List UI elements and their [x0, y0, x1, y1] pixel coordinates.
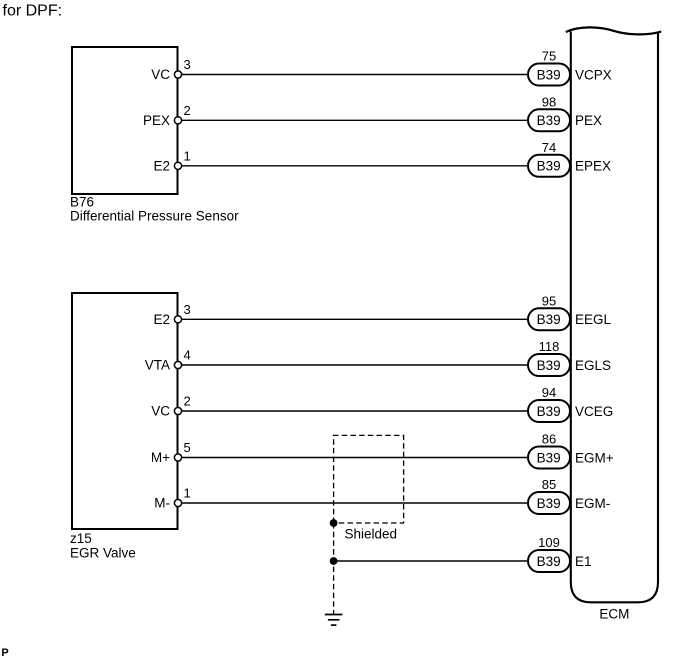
svg-text:EGLS: EGLS	[575, 358, 611, 373]
svg-text:VTA: VTA	[145, 358, 170, 373]
svg-text:M-: M-	[154, 496, 170, 511]
B39 connector oval row 74/EPEX	[528, 140, 611, 177]
svg-text:B39: B39	[537, 159, 561, 174]
svg-text:2: 2	[184, 394, 191, 409]
B39 connector oval row 109/E1	[528, 535, 592, 572]
svg-text:86: 86	[542, 432, 556, 447]
svg-text:B39: B39	[537, 113, 561, 128]
svg-text:109: 109	[538, 535, 560, 550]
svg-text:1: 1	[184, 148, 191, 163]
svg-text:for DPF:: for DPF:	[3, 3, 63, 20]
wire E2(1) to EPEX	[178, 165, 529, 167]
svg-text:E2: E2	[153, 312, 170, 327]
svg-text:E2: E2	[153, 159, 170, 174]
svg-text:PEX: PEX	[575, 113, 602, 128]
B39 connector oval row 75/VCPX	[528, 49, 612, 86]
svg-text:z15: z15	[70, 531, 92, 546]
wire PEX(2) to PEX	[178, 119, 529, 121]
svg-text:VCEG: VCEG	[575, 404, 613, 419]
svg-text:VC: VC	[151, 404, 170, 419]
svg-text:2: 2	[184, 103, 191, 118]
svg-text:B39: B39	[537, 312, 561, 327]
svg-text:94: 94	[542, 385, 556, 400]
shield dashed drain wire	[333, 523, 335, 614]
svg-text:EGM+: EGM+	[575, 450, 614, 465]
svg-text:EGR Valve: EGR Valve	[70, 545, 136, 560]
svg-text:B76: B76	[70, 194, 94, 209]
ground symbol	[325, 615, 343, 626]
svg-text:B39: B39	[537, 496, 561, 511]
pin 4 circle (z15 VTA)	[174, 361, 181, 368]
B39 connector oval row 98/PEX	[528, 94, 602, 131]
B39 connector oval row 94/VCEG	[528, 385, 613, 422]
svg-text:Differential Pressure Sensor: Differential Pressure Sensor	[70, 209, 239, 224]
svg-text:75: 75	[542, 49, 556, 64]
svg-text:VCPX: VCPX	[575, 67, 612, 82]
svg-text:118: 118	[539, 339, 560, 354]
svg-text:1: 1	[184, 486, 191, 501]
svg-text:B39: B39	[537, 67, 561, 82]
svg-text:EPEX: EPEX	[575, 159, 611, 174]
svg-text:85: 85	[542, 477, 556, 492]
svg-text:74: 74	[542, 140, 556, 155]
pin 5 circle (z15 M+)	[174, 454, 181, 461]
connector box z15	[72, 293, 178, 529]
B39 connector oval row 95/EEGL	[528, 293, 612, 330]
svg-text:4: 4	[184, 348, 191, 363]
svg-text:B39: B39	[537, 450, 561, 465]
svg-text:M+: M+	[151, 450, 170, 465]
wire VC(3) to VCPX	[178, 74, 529, 76]
pin 1 circle (z15 M-)	[174, 499, 181, 506]
svg-text:3: 3	[184, 302, 191, 317]
B39 connector oval row 85/EGM-	[528, 477, 610, 514]
wire E2(3) to EEGL	[178, 318, 529, 320]
wire M-(1) to EGM-	[178, 502, 529, 504]
svg-text:EEGL: EEGL	[575, 312, 612, 327]
svg-text:5: 5	[184, 440, 191, 455]
svg-text:E1: E1	[575, 554, 592, 569]
svg-text:B39: B39	[537, 554, 561, 569]
wire VTA(4) to EGLS	[178, 364, 529, 366]
svg-text:VC: VC	[151, 67, 170, 82]
pin 1 circle (B76 E2)	[174, 162, 181, 169]
ECM right vertical line	[657, 32, 659, 583]
svg-text:P: P	[1, 647, 8, 659]
pin 3 circle (B76 VC)	[174, 71, 181, 78]
svg-text:95: 95	[542, 293, 556, 308]
svg-text:ECM: ECM	[599, 607, 629, 622]
pin 3 circle (z15 E2)	[174, 316, 181, 323]
wire M+(5) to EGM+	[178, 457, 529, 459]
junction dot on E1 wire	[330, 557, 338, 565]
connector box B76	[72, 47, 178, 194]
B39 connector oval row 86/EGM+	[528, 432, 614, 469]
svg-text:3: 3	[184, 57, 191, 72]
wire VC(2) to VCEG	[178, 410, 529, 412]
ECM bottom rounded edge	[571, 582, 658, 602]
junction dot on shield at bottom of box	[330, 519, 338, 527]
svg-text:Shielded: Shielded	[345, 527, 398, 542]
pin 2 circle (z15 VC)	[174, 407, 181, 414]
svg-text:B39: B39	[537, 358, 561, 373]
wire shield junction to E1	[334, 560, 529, 562]
svg-text:B39: B39	[537, 404, 561, 419]
B39 connector oval row 118/EGLS	[528, 339, 611, 376]
shield dashed box	[334, 435, 404, 523]
svg-text:98: 98	[542, 94, 556, 109]
ECM left vertical line	[570, 32, 572, 584]
svg-text:PEX: PEX	[143, 113, 170, 128]
pin 2 circle (B76 PEX)	[174, 117, 181, 124]
ECM wavy top edge	[566, 27, 662, 34]
svg-text:EGM-: EGM-	[575, 496, 610, 511]
